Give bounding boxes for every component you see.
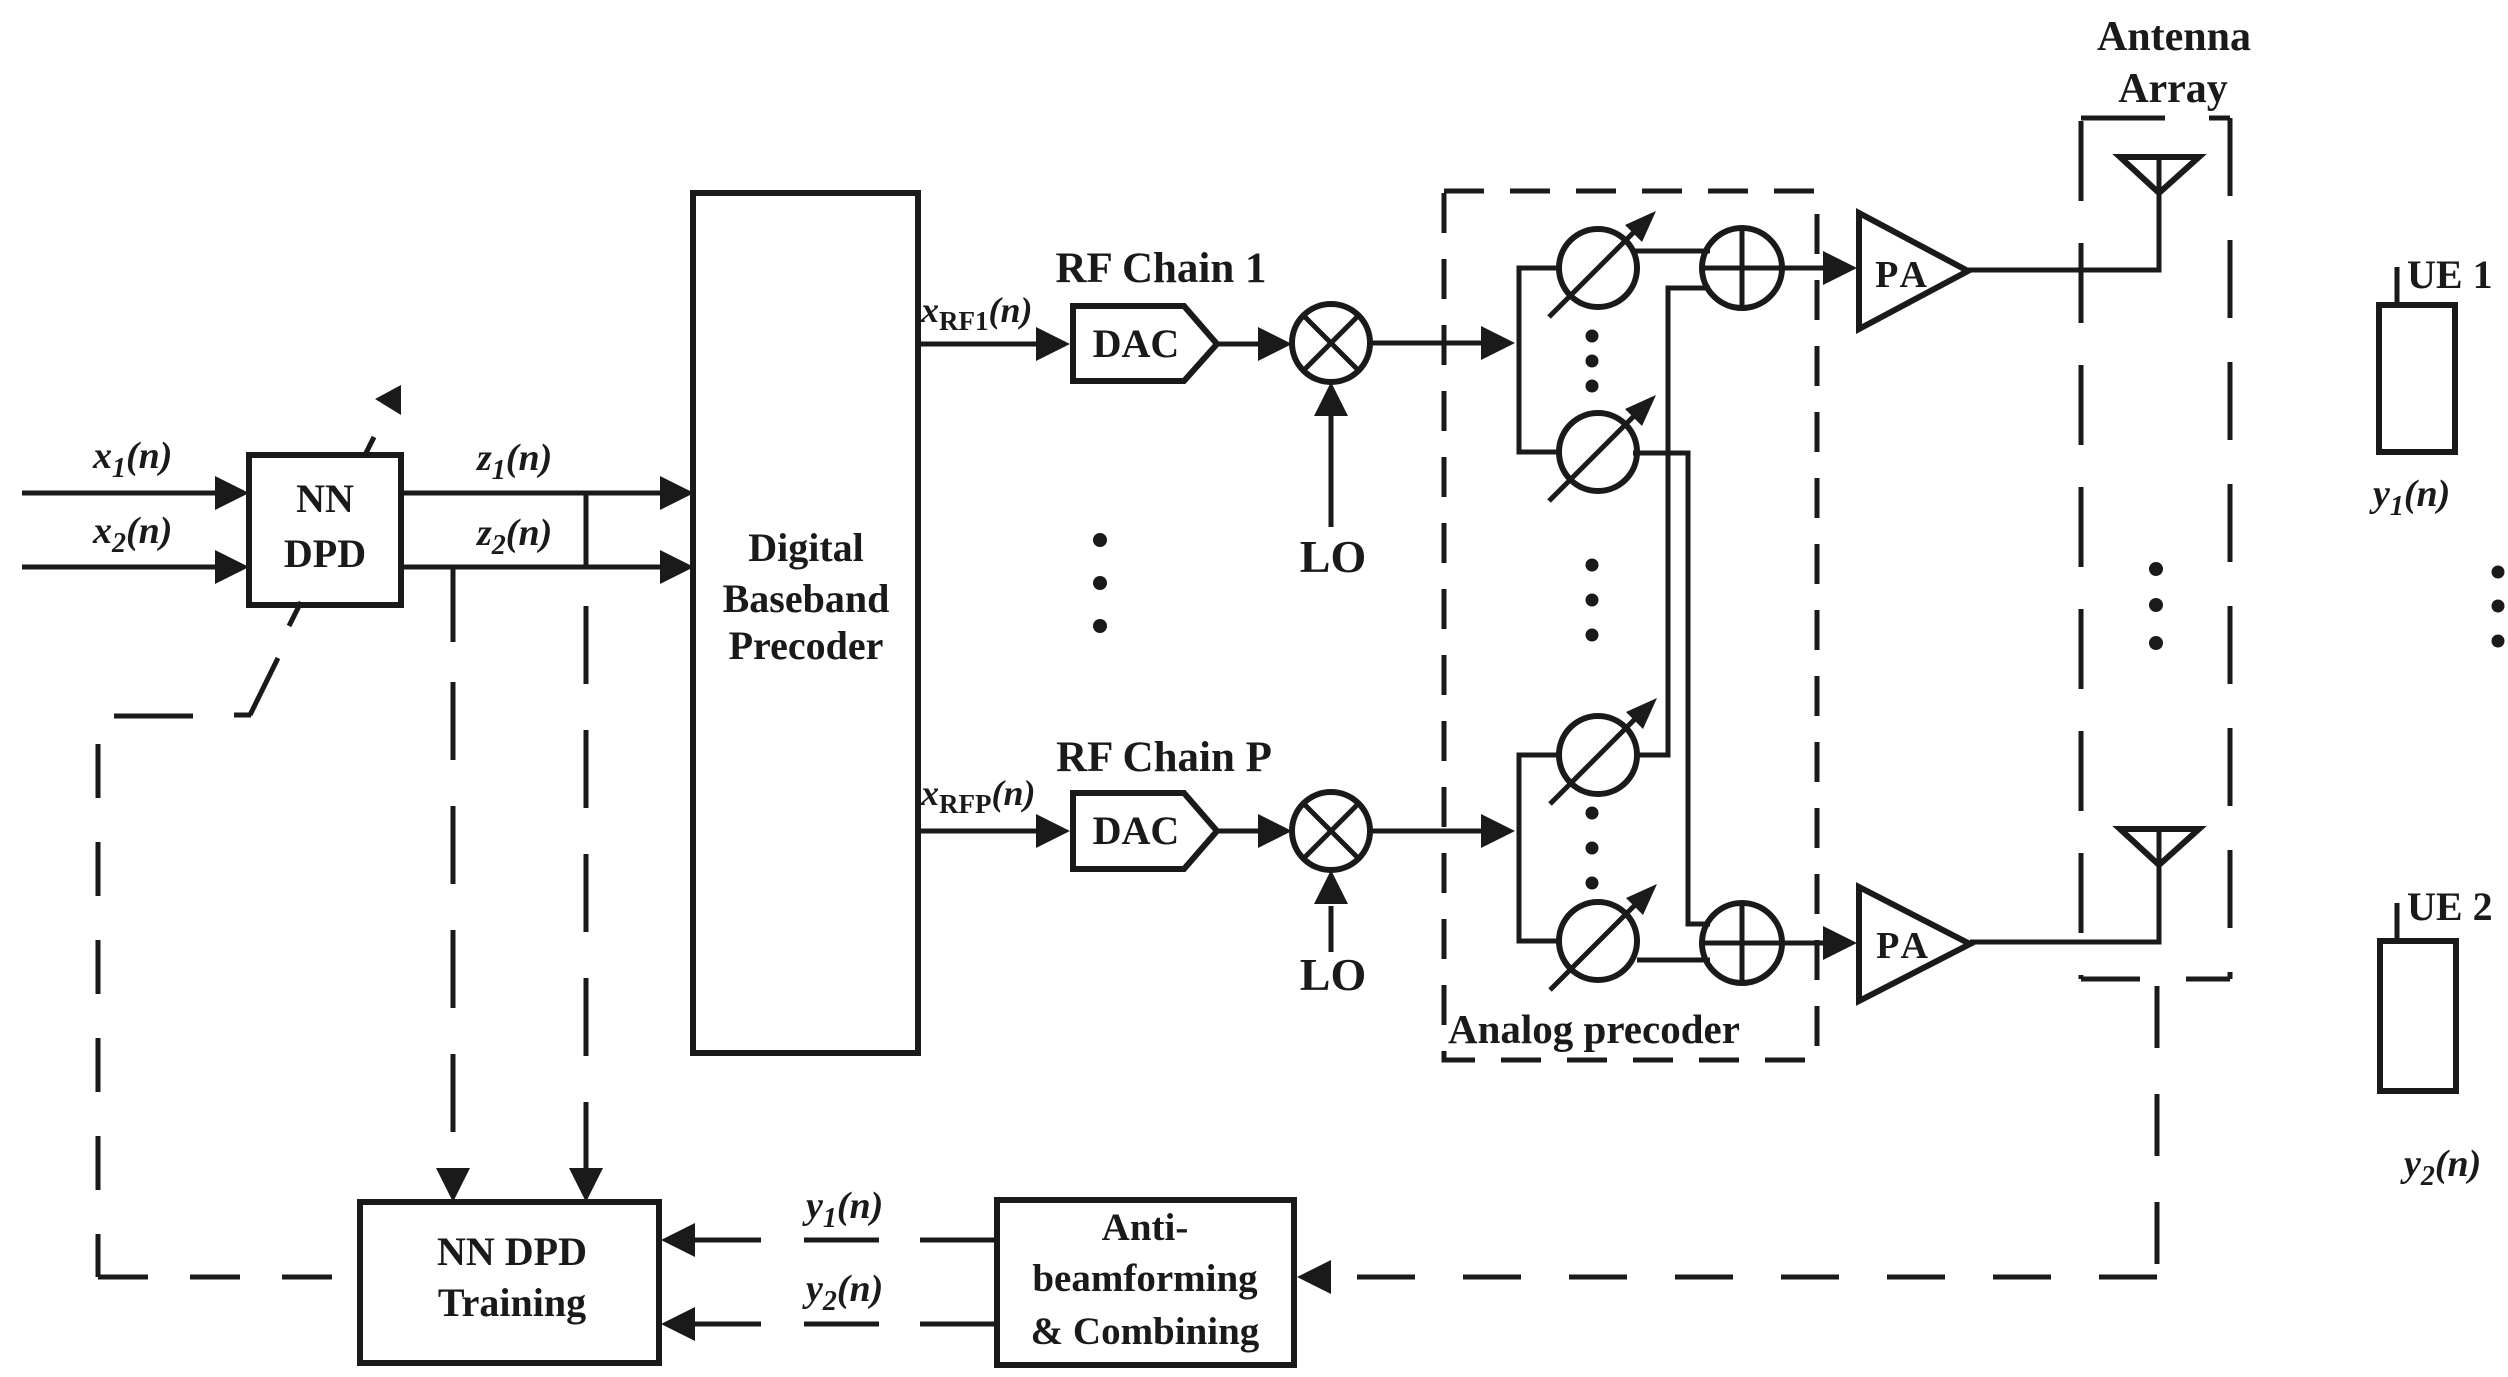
antenna array dashed box [2081,116,2230,121]
dashed wire z1 to training [584,606,589,1168]
dots between UEs [2492,566,2505,579]
LO 1 arrow [1329,416,1334,527]
svg-text:DPD: DPD [284,531,366,576]
switch blade [234,713,251,718]
dashed wire z2 to training [451,682,456,1168]
DAC P [1073,793,1217,869]
analog precoder dashed box [1444,191,1817,1060]
svg-text:DAC: DAC [1093,808,1180,853]
antenna 1 [2120,157,2199,193]
svg-text:Array: Array [2118,66,2228,112]
wire xRF1 [918,342,1036,347]
wire PS2 down to sum2 [1633,453,1710,924]
wire sum2 to PA2 [1782,941,1823,946]
svg-text:Antenna: Antenna [2097,14,2251,60]
left dashed feedback horizontal to training [98,1275,360,1280]
svg-text:LO: LO [1300,949,1366,1000]
splitter rail chain 1 [1519,268,1559,452]
LO P arrow [1329,906,1334,952]
svg-text:x2(n): x2(n) [92,510,172,559]
svg-text:Precoder: Precoder [729,623,884,668]
svg-text:NN DPD: NN DPD [437,1229,587,1274]
phase shifter PS3 [1559,716,1637,794]
svg-text:x1(n): x1(n) [92,435,172,484]
wire DACP to mixerP [1217,829,1258,834]
wire DAC1 to mixer1 [1217,342,1258,347]
block Digital Baseband Precoder [693,193,918,1053]
phase shifter PS4 [1559,902,1637,980]
dots phase shifters groupP [1586,807,1599,820]
block Anti-beamforming and Combining [997,1200,1294,1365]
wire PA1 to antenna1 [1968,193,2159,270]
svg-text:UE 1: UE 1 [2407,252,2493,297]
dots between RF chains [1093,330,2505,890]
block NN DPD Training [360,1202,659,1363]
svg-text:LO: LO [1300,531,1366,582]
wire mixer1 to analog precoder [1370,341,1481,346]
wire PS3 up to sum1 [1637,288,1710,755]
svg-text:PA: PA [1876,925,1932,967]
svg-text:y1(n): y1(n) [2369,473,2450,522]
wire PS4 to sum2 [1637,958,1710,963]
adaptation arrow through NN DPD [289,602,301,626]
wire sum1 to PA1 [1782,266,1823,271]
phase shifter PS2 [1559,413,1637,491]
wire z1 output [401,491,660,496]
svg-text:RF Chain P: RF Chain P [1056,734,1272,781]
svg-text:Training: Training [438,1280,586,1325]
svg-text:y1(n): y1(n) [802,1185,883,1234]
summing junction sum2 [1702,903,1782,983]
dots antenna array [2149,562,2163,576]
mixer P [1292,792,1370,870]
mixer 1 [1292,304,1370,382]
svg-text:y2(n): y2(n) [2400,1143,2481,1192]
wire x1 input [22,491,215,496]
svg-text:PA: PA [1875,254,1931,296]
wire mixerP to analog precoder [1370,829,1481,834]
antenna 2 [2120,829,2199,865]
block NN DPD [249,455,401,605]
dots between groups [1586,559,1599,572]
svg-text:Anti-: Anti- [1102,1206,1189,1249]
wire z2 output [401,565,660,570]
summing junction sum1 [1702,228,1782,308]
svg-text:& Combining: & Combining [1031,1310,1260,1353]
node branch z2 [451,567,456,642]
wire x2 input [22,565,215,570]
UE 2 [2380,941,2456,1091]
svg-text:z2(n): z2(n) [475,512,552,561]
left dashed feedback vertical [96,744,101,1277]
amplifier PA1 [1859,213,1968,329]
wire y1 combining to training [695,1238,761,1243]
svg-text:beamforming: beamforming [1032,1257,1258,1300]
wire y2 combining to training [695,1322,761,1327]
UE 1 [2379,305,2455,452]
svg-text:Digital: Digital [748,525,864,570]
svg-text:z1(n): z1(n) [475,437,552,486]
dashed feedback from antenna array down [2155,986,2160,1277]
svg-text:Baseband: Baseband [723,576,890,621]
svg-text:DAC: DAC [1093,321,1180,366]
svg-text:UE 2: UE 2 [2407,884,2493,929]
DAC 1 [1073,306,1217,381]
svg-text:y2(n): y2(n) [802,1268,883,1317]
phase shifter PS1 [1559,229,1637,307]
wire PS1 to sum1 [1633,249,1710,254]
amplifier PA2 [1859,887,1970,1001]
dashed feedback wire to combining [1334,1275,2157,1280]
svg-text:RF Chain 1: RF Chain 1 [1055,245,1266,292]
svg-text:NN: NN [296,476,354,521]
svg-text:Analog precoder: Analog precoder [1448,1006,1740,1052]
wire PA2 to antenna2 [1970,865,2159,942]
node branch z1 [584,493,589,567]
dots phase shifters group1 [1586,330,1599,343]
dashed control wire segment [114,714,193,719]
splitter rail chain P [1519,755,1560,941]
wire xRFP [918,829,1036,834]
